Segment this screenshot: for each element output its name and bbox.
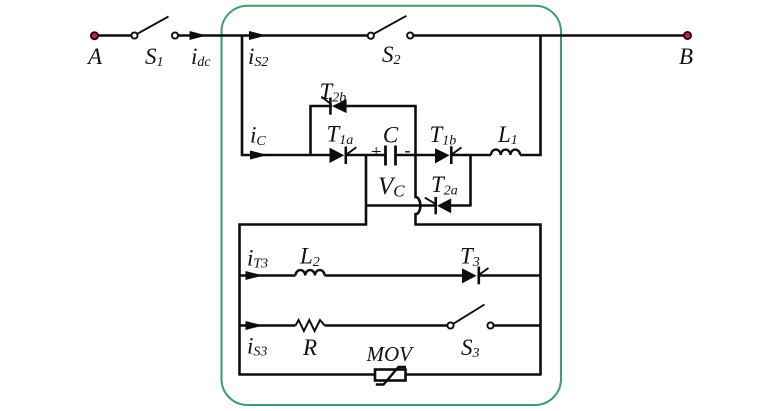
capacitor C bbox=[386, 146, 396, 166]
wire T3 branch left bbox=[239, 274, 296, 276]
svg-text:A: A bbox=[86, 44, 103, 69]
wire S2 to node B bbox=[413, 34, 687, 36]
wire T3 to right bbox=[478, 274, 542, 276]
wire T1b to L1 bbox=[452, 154, 491, 156]
wire node iS2 to switch S2 bbox=[242, 34, 368, 36]
wire iC branch to T1a bbox=[241, 154, 331, 156]
svg-text:+: + bbox=[370, 142, 383, 163]
wire L2 to T3 bbox=[325, 274, 462, 276]
switch S1 bbox=[131, 17, 178, 39]
svg-text:C: C bbox=[383, 123, 399, 148]
svg-text:T3: T3 bbox=[460, 244, 480, 271]
wire right vertical bus bbox=[539, 35, 542, 157]
switch S2 bbox=[368, 16, 414, 39]
svg-text:L1: L1 bbox=[497, 122, 518, 148]
wire R to S3 bbox=[325, 324, 448, 326]
current arrow i_S2 bbox=[249, 31, 267, 40]
wire A to S1 bbox=[98, 34, 132, 36]
svg-text:T2a: T2a bbox=[431, 172, 458, 199]
wire lower box bottom left of MOV bbox=[239, 373, 377, 376]
switch S3 bbox=[447, 305, 493, 329]
wire T2b branch left vertical bbox=[309, 105, 312, 156]
current arrow i_S3 bbox=[246, 321, 264, 330]
thyristor T1a bbox=[330, 147, 357, 165]
svg-text:S3: S3 bbox=[461, 335, 480, 361]
wire S1 to node iS2 junction bbox=[178, 34, 242, 36]
resistor R bbox=[296, 320, 325, 331]
wire T2b branch right vertical bbox=[414, 105, 417, 156]
wire C to T1b bbox=[396, 154, 436, 156]
svg-text:T2b: T2b bbox=[320, 79, 347, 106]
wire node between T1a and C down to lower box bbox=[365, 154, 368, 226]
wire T2b branch top left segment bbox=[310, 105, 333, 107]
wire T1a to capacitor C bbox=[347, 154, 386, 156]
wire S3 to right bbox=[493, 324, 541, 326]
inductor L2 bbox=[296, 270, 325, 275]
svg-text:-: - bbox=[404, 141, 410, 162]
wire T2a to node between T1b and L1 bbox=[451, 204, 471, 206]
wire lower box bottom right of MOV bbox=[405, 373, 542, 376]
svg-text:L2: L2 bbox=[299, 244, 320, 271]
svg-text:MOV: MOV bbox=[366, 342, 415, 366]
wire R branch left bbox=[239, 324, 296, 326]
svg-text:iS3: iS3 bbox=[247, 334, 267, 360]
wire vertical from T2a up to node between T1b and L1 bbox=[469, 154, 472, 207]
node A bbox=[91, 32, 98, 39]
thyristor T2a bbox=[425, 197, 451, 214]
enclosure box (green rounded border) bbox=[222, 6, 562, 405]
wire T2a branch horizontal bbox=[365, 204, 437, 206]
wire T2b branch top right segment bbox=[347, 105, 417, 107]
wire L1 to right bus bbox=[520, 154, 541, 156]
current arrow i_dc bbox=[190, 31, 207, 40]
svg-text:iC: iC bbox=[250, 123, 266, 150]
thyristor T1b bbox=[435, 146, 462, 164]
svg-text:iS2: iS2 bbox=[248, 44, 268, 70]
current arrow i_C bbox=[250, 151, 268, 160]
wire lower box top-right segment bbox=[415, 225, 541, 376]
current arrow i_T3 bbox=[246, 271, 264, 280]
varistor MOV bbox=[375, 367, 406, 385]
wire left vertical bus (node iS2 down to iC branch) bbox=[241, 35, 244, 157]
thyristor T2b bbox=[321, 97, 346, 115]
svg-text:S2: S2 bbox=[382, 42, 401, 68]
svg-text:T1a: T1a bbox=[327, 122, 354, 149]
svg-text:S1: S1 bbox=[145, 44, 164, 70]
wire node between C and T1b down to lower box (with hop over T2a wire) bbox=[416, 154, 421, 226]
thyristor T3 bbox=[462, 267, 489, 285]
svg-text:iT3: iT3 bbox=[247, 246, 268, 272]
svg-text:R: R bbox=[302, 335, 317, 360]
inductor L1 bbox=[491, 150, 520, 155]
svg-text:idc: idc bbox=[191, 44, 211, 70]
svg-text:B: B bbox=[679, 44, 693, 69]
wire lower box top-left segment bbox=[240, 225, 368, 376]
svg-text:T1b: T1b bbox=[430, 122, 457, 149]
svg-text:VC: VC bbox=[378, 173, 405, 201]
node B bbox=[684, 32, 691, 39]
